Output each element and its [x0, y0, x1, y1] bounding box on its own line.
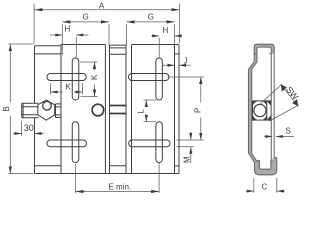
svg-text:K: K [90, 74, 99, 80]
dim E min [76, 163, 160, 193]
lower-left horizontal slot [47, 140, 87, 147]
screw collar [56, 104, 62, 118]
svg-text:S: S [286, 127, 291, 136]
svg-text:30: 30 [24, 123, 34, 133]
svg-text:C: C [262, 183, 268, 192]
right wall outer [273, 54, 275, 158]
cap lip bottom ticks [254, 53, 271, 55]
upper-right horizontal slot [129, 74, 170, 81]
svg-text:K: K [66, 83, 72, 92]
lower-right vertical slot [156, 122, 163, 163]
right jaw left face [131, 45, 133, 174]
left block top edge [35, 45, 62, 47]
left outer slant + wall [248, 62, 254, 162]
upper-left horizontal slot [47, 74, 86, 81]
svg-text:B: B [2, 106, 11, 111]
screw ball hexagon [38, 100, 55, 120]
svg-text:G: G [148, 13, 154, 22]
K horiz arrows [51, 91, 58, 94]
dim J [163, 64, 191, 66]
post top edge [110, 44, 127, 46]
B arrows [9, 44, 12, 51]
outer contour top cap [254, 44, 274, 62]
J arrows (outside) [168, 64, 175, 67]
left jaw right face [104, 45, 106, 174]
svg-text:SW: SW [284, 84, 301, 102]
foot outer [254, 158, 276, 175]
foot U ring [254, 158, 276, 175]
upper-right vertical slot [156, 58, 163, 100]
top cap ring [254, 44, 274, 54]
arrows front [9, 8, 203, 193]
svg-text:H: H [65, 25, 71, 34]
side nut assembly [253, 101, 272, 120]
dim H right [151, 36, 182, 58]
grey wall fills [248, 44, 276, 175]
body top edge jaws [61, 44, 175, 46]
SW dimension [260, 84, 300, 121]
center circle hole [92, 104, 104, 116]
bottom slant [248, 153, 257, 163]
right wall inner [270, 54, 272, 161]
left upper wall [254, 54, 257, 62]
svg-text:H: H [163, 26, 169, 35]
dim M [177, 132, 195, 163]
dim G right [127, 24, 175, 45]
screw shank hex [22, 103, 39, 118]
center post [110, 45, 127, 173]
dim K horizontal [51, 83, 83, 95]
M arrows (outside) [189, 133, 192, 140]
ball inner circle [43, 102, 52, 111]
left edge [34, 46, 36, 174]
svg-text:G: G [83, 13, 89, 22]
G arrows [62, 20, 70, 23]
dim B [9, 44, 34, 174]
left wall [248, 69, 251, 153]
svg-text:L: L [137, 109, 146, 114]
P arrows [199, 77, 202, 84]
upper-left vertical slot [72, 58, 79, 100]
dim A [34, 4, 179, 44]
dim H left [50, 35, 89, 58]
svg-text:A: A [99, 2, 105, 11]
svg-text:M: M [183, 156, 192, 163]
left inner slant + wall [252, 54, 258, 162]
H arrows (outside) [55, 34, 62, 37]
lower-right horizontal slot [129, 140, 170, 147]
dim 30 [13, 121, 44, 136]
dim P [168, 77, 205, 140]
svg-text:J: J [184, 57, 188, 66]
inner cap contour [257, 47, 271, 54]
C dim [246, 178, 285, 193]
E min arrows [76, 190, 84, 193]
svg-text:E min.: E min. [109, 183, 132, 192]
30 arrows (outside) [15, 132, 22, 135]
bottom base edge [35, 173, 175, 175]
svg-text:P: P [194, 108, 203, 113]
left block lines [35, 54, 62, 166]
right edge [174, 45, 176, 174]
foot groove + cavity floor [257, 160, 273, 169]
A arrows [35, 8, 43, 11]
dim G left [62, 24, 109, 55]
side view outlines [248, 44, 276, 175]
block-jaw interface [60, 45, 62, 174]
L arrows [145, 100, 148, 107]
dim K vertical [80, 62, 98, 97]
S dim [264, 136, 294, 138]
K vert arrows [93, 62, 96, 69]
post screw bands [110, 106, 127, 114]
lower-left vertical slot [72, 122, 79, 163]
left slant upper [248, 62, 257, 69]
dim L [144, 100, 157, 122]
right plate [175, 45, 180, 174]
